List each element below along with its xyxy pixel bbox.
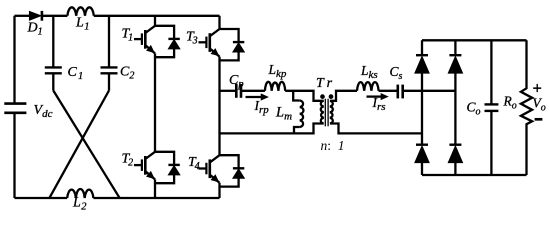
capacitor C2	[101, 16, 118, 91]
label -	[535, 118, 543, 121]
source Vdc	[4, 104, 26, 113]
diode Dr2	[448, 55, 462, 73]
wire bridge leg B middle	[218, 57, 220, 156]
wire rectifier left leg	[421, 40, 423, 175]
label L1	[75, 15, 90, 32]
diode Dr3	[415, 145, 429, 163]
label L2	[72, 196, 87, 213]
capacitor Cs	[398, 85, 403, 99]
transistor T4	[199, 155, 245, 186]
wire rectifier bottom rail	[422, 174, 527, 176]
wire C1 cross diagonal	[53, 91, 119, 198]
wire left rail lower	[13, 114, 15, 198]
wire bridge leg A middle	[154, 53, 156, 151]
label T3	[186, 30, 198, 47]
label C2	[120, 65, 134, 82]
transistor T3	[199, 29, 245, 60]
label Vo	[533, 95, 546, 113]
current arrow Irp	[246, 94, 268, 100]
label Ro	[503, 93, 517, 111]
capacitor Co	[485, 40, 499, 175]
wire rectifier top rail	[422, 39, 527, 41]
wire bridge leg B top	[218, 16, 220, 29]
wire bridge leg B bottom	[218, 183, 220, 198]
inductor L1	[67, 7, 93, 15]
wire primary bottom return	[220, 124, 324, 134]
wire C2 cross diagonal	[50, 91, 110, 198]
wire bridge leg A top	[154, 16, 156, 26]
wire top rail to bridge	[94, 15, 220, 17]
label Co	[467, 99, 481, 117]
label Tr	[316, 76, 333, 91]
wire left rail upper	[13, 16, 15, 103]
label n:1	[321, 138, 345, 153]
wire Cs to rectifier	[404, 90, 456, 92]
transistor T1	[134, 26, 180, 57]
wire secondary bottom return	[330, 124, 422, 134]
label Vdc	[34, 103, 53, 120]
inductor Lks	[357, 82, 379, 91]
label T4	[188, 155, 200, 172]
transformer Tr primary winding	[321, 101, 324, 124]
label D1	[27, 21, 43, 38]
wire bridge output to Cp	[220, 90, 236, 92]
label +	[533, 78, 542, 97]
current arrow Irs	[367, 94, 388, 100]
wire bottom rail left	[15, 197, 68, 199]
wire rectifier right leg	[454, 40, 456, 175]
wire Lks to Cs	[379, 90, 397, 92]
wire bridge leg A bottom	[154, 179, 156, 198]
diode D1	[29, 11, 42, 21]
transformer Tr secondary winding	[330, 101, 333, 124]
wire Lkp to transformer	[285, 91, 323, 101]
wire secondary top	[330, 91, 357, 101]
label T2	[122, 152, 134, 169]
wire bottom rail to bridge	[93, 197, 219, 199]
capacitor Cp	[236, 84, 241, 98]
inductor L2	[67, 189, 93, 198]
label Lks	[360, 63, 378, 81]
wire top rail left	[15, 15, 31, 17]
transformer polarity dot primary	[321, 95, 325, 99]
label Cs	[390, 64, 403, 82]
capacitor C1	[45, 16, 62, 91]
label Cp	[229, 73, 244, 90]
label T1	[122, 27, 134, 44]
svg-text:n: 1: n: 1	[321, 138, 345, 153]
label C1	[68, 65, 84, 82]
transistor T2	[134, 152, 180, 183]
svg-text:T r: T r	[316, 76, 333, 91]
diode Dr1	[415, 55, 429, 73]
wire D1 to L1	[43, 15, 68, 17]
inductor Lm branch	[293, 91, 303, 134]
diode Dr4	[448, 145, 462, 163]
wire Cp to Lkp	[242, 90, 265, 92]
label Irp	[254, 98, 270, 116]
label Lkp	[268, 62, 287, 80]
transformer polarity dot secondary	[329, 95, 333, 99]
label Irs	[372, 95, 386, 113]
resistor Ro	[521, 40, 532, 175]
transformer core	[325, 99, 328, 127]
inductor Lkp	[265, 82, 285, 91]
label Lm	[275, 104, 292, 122]
